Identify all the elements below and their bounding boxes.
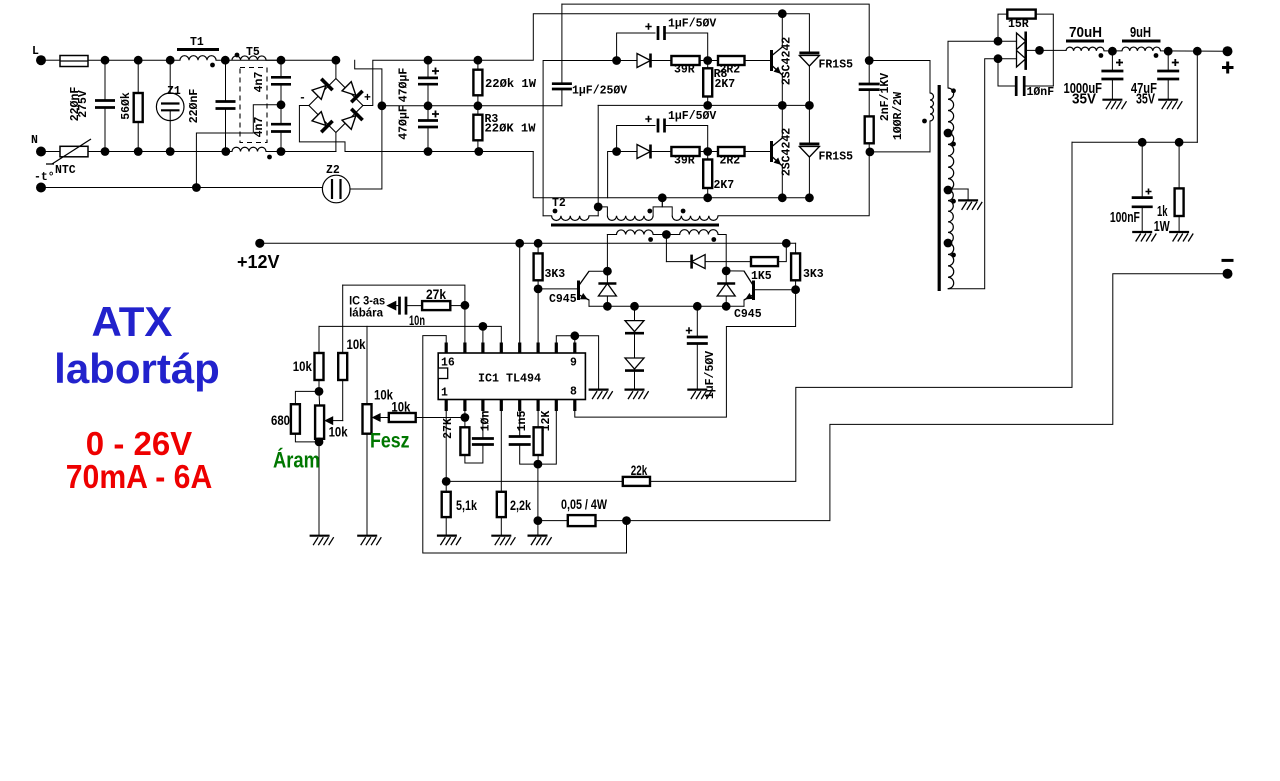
svg-text:0 - 26V: 0 - 26V	[86, 425, 192, 462]
svg-text:0,05 / 4W: 0,05 / 4W	[561, 497, 607, 512]
capacitor 4n7 lower	[271, 124, 291, 131]
resistor 680	[291, 404, 300, 434]
wire fesz pot top	[366, 326, 368, 404]
svg-text:1µF/25ØV: 1µF/25ØV	[572, 85, 627, 98]
wire 3K3 left top lead	[537, 243, 539, 253]
node bottom wire x138	[134, 147, 143, 156]
T5 dashed box	[240, 68, 267, 143]
svg-text:Áram: Áram	[273, 448, 320, 473]
T3 secondary winding s3	[948, 190, 953, 243]
terminal L	[36, 55, 46, 65]
wire R8 bottom lead	[707, 97, 709, 106]
wire 3K3 left bottom lead	[537, 280, 539, 289]
wire pot aram bottom	[318, 439, 321, 442]
node minus x478	[474, 147, 483, 156]
potentiometer fesz 10k	[363, 404, 372, 434]
node pin1	[442, 477, 451, 486]
wire wiper to 10k4	[381, 417, 389, 419]
wire C12 top lead	[1167, 51, 1169, 71]
transformer T2 core	[551, 224, 719, 227]
node tap2	[944, 186, 953, 195]
wire drive diode right bottom	[725, 296, 727, 306]
plus sign C6	[432, 111, 439, 118]
wire fesz to ground	[366, 434, 368, 536]
node bridge top	[332, 56, 341, 65]
svg-text:1ØØR/2W: 1ØØR/2W	[892, 92, 905, 140]
svg-text:16: 16	[441, 357, 455, 370]
pin 9 stub	[573, 343, 576, 354]
wire L2 to output	[1161, 50, 1228, 52]
svg-text:C945: C945	[549, 293, 577, 306]
svg-text:2nF/1KV: 2nF/1KV	[879, 73, 892, 121]
ground 1k	[1169, 231, 1189, 233]
diode FR155 lower	[799, 143, 819, 146]
wire 5,1k to ground	[445, 517, 447, 536]
wire 10n to pin3	[482, 411, 484, 439]
wire pin2 lead	[464, 411, 466, 418]
node T2 drive center tap	[662, 230, 671, 239]
NTC thermistor	[60, 146, 88, 157]
wire T2 winding A to upper branch	[543, 61, 617, 216]
wire bridge plus output	[363, 60, 428, 105]
wire pin6 lead	[537, 411, 539, 427]
svg-text:T2: T2	[552, 197, 566, 210]
node midrail x428	[424, 101, 433, 110]
node midrail x809	[805, 101, 814, 110]
ground shunt	[528, 534, 548, 536]
node lower 39R/2R2	[703, 147, 712, 156]
svg-text:4n7: 4n7	[253, 72, 266, 93]
node +310 x428	[424, 56, 433, 65]
fuse F1	[60, 56, 88, 67]
wire C13 top lead	[1141, 142, 1143, 197]
svg-text:22ØK 1W: 22ØK 1W	[485, 123, 536, 136]
resistor R3 220K 1W	[473, 115, 482, 141]
node pin2	[461, 413, 470, 422]
wire R8 top lead	[707, 61, 709, 69]
wire Q4 emitter drop	[743, 300, 745, 306]
svg-text:70uH: 70uH	[1069, 24, 1102, 41]
wire C8 right lead	[665, 33, 708, 61]
wire C7 to snubber top	[562, 4, 869, 60]
wire 1K5 to +12	[778, 243, 786, 261]
svg-text:3K3: 3K3	[545, 268, 566, 281]
svg-text:22k: 22k	[631, 463, 648, 478]
wire -310 to T2 C	[662, 198, 672, 216]
T2 winding A	[552, 216, 589, 221]
inductor L1 bar	[1066, 40, 1104, 43]
node rectifier anode A	[994, 37, 1003, 46]
wire 39R to node lower	[700, 151, 718, 153]
diode string D9	[625, 358, 644, 369]
capacitor 10n pin3	[472, 439, 494, 445]
wire C 4n7a bottom lead	[280, 84, 282, 105]
pin 4 stub	[500, 400, 503, 412]
wire 680 bottom	[295, 434, 319, 442]
T2 drive winding A2	[617, 230, 654, 235]
resistor 100R/2W	[865, 116, 874, 143]
node +310 x478	[474, 56, 483, 65]
diode across Q3	[598, 284, 616, 297]
wire anodeB to diode	[998, 58, 1017, 60]
svg-text:Z2: Z2	[326, 164, 340, 177]
svg-text:IC 3-as: IC 3-as	[349, 296, 385, 308]
wire T2 drive left drop	[606, 235, 608, 272]
wire R 220k bottom lead	[477, 95, 479, 106]
resistor 3K3 left	[534, 253, 543, 280]
wire between string diodes	[634, 333, 636, 358]
inductor L2 bar	[1122, 40, 1161, 43]
wire lower branch left drop	[608, 152, 617, 198]
node shunt right	[622, 516, 631, 525]
wire aram to ground	[318, 442, 320, 536]
wire secondary bottom to D11	[948, 59, 998, 289]
wire 10k1 bottom lead	[318, 380, 320, 391]
resistor 1k 1W	[1175, 188, 1184, 216]
node T2 primary mid	[594, 203, 603, 212]
svg-text:10k: 10k	[347, 337, 366, 352]
resistor 2R2 upper	[718, 56, 745, 65]
resistor 39R lower	[671, 147, 699, 156]
wire 15R right	[1036, 14, 1054, 86]
wire Z1 bottom lead	[169, 110, 171, 151]
wiper arrow fesz	[372, 413, 381, 422]
transistor Q2 2SC4242	[770, 141, 773, 162]
wire tap2 to ground	[948, 188, 968, 190]
pin 10 stub	[555, 343, 558, 354]
wire to D6	[617, 151, 637, 153]
wire pin11 lead	[537, 289, 539, 343]
node Q3 base	[534, 285, 543, 294]
svg-text:1W: 1W	[1154, 218, 1171, 235]
wire shunt right	[596, 520, 627, 522]
wire T2 drive row mid	[653, 234, 680, 236]
wire 10k2 top line	[343, 285, 465, 305]
phase dot s1	[951, 88, 956, 93]
phase dot s3	[951, 199, 956, 204]
capacitor 100nF	[1132, 198, 1153, 207]
wire 10k2 to wiper	[342, 380, 344, 421]
wire C6 bottom lead	[427, 127, 429, 152]
resistor 2K7 lower	[703, 160, 712, 189]
wire to D5	[617, 60, 637, 62]
svg-text:2K7: 2K7	[715, 78, 736, 91]
wire output sense branch	[1196, 51, 1198, 142]
wire Q4 collector	[726, 270, 744, 272]
svg-text:-: -	[299, 92, 306, 105]
wire pin9 lead	[574, 336, 576, 343]
wire rectifier output	[1026, 49, 1066, 51]
transformer T1 core	[177, 48, 219, 51]
wire tap2 gnd lead	[967, 189, 969, 200]
node top wire x105	[101, 56, 110, 65]
transistor Q1 2SC4242	[770, 50, 773, 71]
wire C 4n7b top lead	[280, 105, 282, 124]
wire C11 to ground	[1111, 79, 1113, 100]
svg-text:N: N	[31, 134, 38, 147]
resistor 10k second	[338, 353, 347, 380]
wire C7 top lead	[561, 4, 563, 84]
wire Vref line	[319, 325, 483, 327]
wire snubber cap lead	[868, 61, 870, 85]
node +12 x538	[534, 239, 543, 248]
wire L1 to node	[1104, 50, 1122, 52]
dual rectifier diode D10/D11	[1017, 33, 1026, 67]
wire 22k to output sense	[650, 142, 1072, 481]
bridge rectifier diamond	[309, 79, 363, 133]
plus sign C9	[645, 116, 651, 122]
wire C11 top lead	[1111, 51, 1113, 71]
wire Q1 emitter	[781, 75, 783, 105]
wire primary top lead	[929, 61, 931, 94]
T2 drive winding B2	[680, 230, 718, 235]
wire NTC to T5	[88, 151, 232, 153]
wire anodeA to diode	[998, 40, 1017, 42]
svg-text:T1: T1	[190, 36, 204, 49]
node aram bottom	[315, 438, 324, 447]
diode D7	[692, 255, 706, 269]
capacitor 1uF/250V	[552, 84, 572, 89]
wire 27K top lead	[464, 418, 466, 428]
surge arrester Z2	[322, 175, 350, 203]
IC U1 TL494 body	[438, 353, 585, 400]
node lower branch left	[612, 147, 621, 156]
svg-text:-t°: -t°	[34, 171, 55, 184]
resistor 39R upper	[671, 56, 699, 65]
ground C12	[1158, 99, 1178, 101]
varistor Z1	[156, 93, 184, 121]
wire primary bottom rail	[869, 151, 930, 153]
svg-text:ATX: ATX	[92, 298, 173, 345]
wire sense rail	[1072, 141, 1197, 143]
wire T2 A left	[543, 215, 552, 217]
phase dot T3 primary	[922, 119, 927, 124]
wire 1n5 bottom	[520, 445, 538, 465]
node snubber bottom	[866, 148, 875, 157]
ground fesz pot	[357, 535, 377, 537]
pin 8 stub	[573, 400, 576, 412]
node pin9/10	[570, 331, 579, 340]
phase dot T1	[210, 63, 215, 68]
node aram top	[315, 387, 324, 396]
node 4n7 top	[277, 56, 286, 65]
wire switch-node rail	[598, 104, 809, 106]
svg-text:22ØnF: 22ØnF	[188, 89, 201, 124]
T2 winding C	[672, 216, 718, 221]
svg-text:9uH: 9uH	[1130, 24, 1151, 41]
wire shunt left	[538, 520, 568, 522]
resistor 10k wiper	[389, 413, 416, 422]
node midrail x707	[703, 101, 712, 110]
wire drive diode right lead	[725, 271, 727, 284]
wire primary bottom lead	[929, 121, 931, 152]
wire C8 left lead	[617, 33, 655, 61]
svg-text:10k: 10k	[329, 425, 348, 440]
inductor L2 9uH	[1122, 47, 1160, 51]
node tap1	[944, 129, 953, 138]
transformer T3 core	[938, 85, 941, 291]
node top wire x170	[166, 56, 175, 65]
transistor Q3 C945	[577, 281, 580, 301]
wire +12V rail	[260, 242, 796, 244]
node sense x1179	[1175, 138, 1184, 147]
wire pin14 lead	[482, 326, 484, 342]
phase dot T2 B	[647, 209, 652, 214]
wire switch node to T2	[597, 105, 599, 206]
svg-text:35V: 35V	[1136, 91, 1155, 108]
svg-text:10k: 10k	[293, 359, 312, 374]
wire pin9 to ground	[575, 336, 599, 390]
node emitter rail x634	[630, 302, 639, 311]
svg-text:35V: 35V	[1072, 91, 1096, 108]
pin 12 stub	[518, 343, 521, 354]
capacitor 1uF/50V drive	[687, 337, 708, 344]
phase dot T5 bottom	[267, 155, 272, 160]
wire C1 top lead	[104, 60, 106, 100]
plus sign C5	[432, 68, 439, 75]
wire C 4n7a top lead	[280, 60, 282, 77]
diode string D8	[625, 321, 644, 332]
node Q3 collector	[603, 267, 612, 276]
node upper branch left	[612, 56, 621, 65]
wire drive diode left lead	[606, 271, 608, 283]
wire earth line	[41, 187, 322, 189]
wire C2 bottom lead	[225, 109, 227, 152]
pin 2 stub	[463, 400, 466, 412]
node emitter rail x697	[693, 302, 702, 311]
node top wire x225	[221, 56, 230, 65]
wire Q3 collector	[589, 270, 607, 272]
transistor Q4 C945	[752, 281, 755, 301]
pin 6 stub	[536, 400, 539, 412]
wire Q2 collector	[781, 105, 783, 138]
node emitter rail x726	[722, 302, 731, 311]
node shunt left	[534, 516, 543, 525]
node +12 x519	[515, 239, 524, 248]
svg-text:Fesz: Fesz	[370, 430, 410, 453]
resistor 3K3 right	[791, 253, 800, 280]
resistor 2R2 lower	[718, 147, 745, 156]
capacitor 2nF/1KV	[859, 84, 880, 90]
wire minus rail	[345, 151, 533, 153]
svg-text:+12V: +12V	[237, 252, 280, 272]
wire pin4 lead	[500, 411, 502, 492]
svg-text:27k: 27k	[426, 287, 446, 302]
capacitor 1n5	[509, 437, 531, 445]
node snubber top	[865, 56, 874, 65]
wire C5 bottom lead	[427, 84, 429, 106]
wire C9 right lead	[665, 126, 708, 152]
svg-text:1µF/5ØV: 1µF/5ØV	[668, 110, 716, 123]
ground 2,2k	[491, 535, 511, 537]
node doubler midpoint	[378, 101, 387, 110]
inductor L1 70uH	[1066, 47, 1104, 51]
wire 39R to node	[700, 60, 718, 62]
resistor 15R	[1007, 10, 1035, 19]
svg-text:27K: 27K	[442, 418, 455, 439]
wire C 4n7b bottom lead	[280, 132, 282, 152]
plus sign C10	[686, 327, 692, 333]
wire C5 top lead	[427, 60, 429, 78]
wire FR155 upper anode	[808, 66, 810, 105]
ground pins 9/10	[589, 389, 609, 391]
node upper collector	[778, 9, 787, 18]
capacitor 10n feedback	[400, 297, 407, 315]
wire 3K3 right bottom lead	[795, 280, 797, 289]
svg-text:39R: 39R	[674, 155, 695, 168]
svg-text:2K7: 2K7	[714, 179, 735, 192]
svg-text:1ØnF: 1ØnF	[1027, 86, 1055, 99]
wire R 220k top lead	[477, 60, 479, 69]
node 4n7 midpoint	[277, 100, 286, 109]
capacitor 10nF	[1016, 76, 1024, 96]
plus sign C12	[1172, 59, 1179, 66]
svg-text:39R: 39R	[674, 64, 695, 77]
wire 12K bottom lead	[537, 455, 539, 464]
node minus x428	[424, 147, 433, 156]
wire Z1 top lead	[169, 60, 171, 103]
wire 10k2 top lead	[342, 285, 344, 353]
node -310 x662	[658, 193, 667, 202]
T3 secondary winding s2	[948, 133, 954, 190]
wire L to fuse	[45, 59, 60, 61]
svg-text:4n7: 4n7	[253, 117, 266, 138]
wire primary return to T2	[718, 152, 869, 216]
svg-text:lábára: lábára	[349, 308, 384, 320]
T3 secondary winding s4	[948, 243, 954, 289]
svg-text:C945: C945	[734, 308, 762, 321]
wire line2 to FR155	[782, 14, 809, 53]
ground aram pot	[310, 535, 330, 537]
wire N to NTC	[45, 151, 60, 153]
resistor 22k	[623, 477, 650, 486]
wire C10 top lead	[696, 306, 698, 337]
wire R 560k bottom lead	[137, 122, 139, 152]
wire Q3 base	[538, 288, 578, 290]
wire 27k to node	[450, 305, 465, 307]
node -310 x809	[805, 193, 814, 202]
resistor 5,1k	[442, 492, 451, 517]
diode FR155 upper	[799, 52, 819, 55]
wire CT to D7	[666, 261, 691, 263]
wire primary top	[869, 60, 930, 62]
pin 13 stub	[500, 343, 503, 354]
wire fuse to T1	[88, 59, 180, 61]
wire R3 bottom lead	[477, 140, 479, 151]
phase dot s2	[951, 142, 956, 147]
wire Vref to pin13	[483, 326, 501, 342]
svg-text:8: 8	[570, 386, 577, 399]
pin 1 stub	[445, 400, 448, 412]
svg-text:1: 1	[441, 387, 448, 400]
node 27k out	[461, 301, 470, 310]
wire pin1 to 22k	[446, 480, 623, 482]
wire 10nF right	[1024, 85, 1053, 87]
node -310 x707	[703, 193, 712, 202]
node timing	[534, 460, 543, 469]
svg-text:2,2k: 2,2k	[510, 498, 531, 513]
svg-text:47ØµF: 47ØµF	[398, 68, 411, 103]
wire C7 bottom lead	[561, 89, 563, 106]
node bottom wire x105	[101, 147, 110, 156]
svg-text:1µF/5ØV: 1µF/5ØV	[668, 18, 716, 31]
wire pin16 to sense	[423, 336, 627, 553]
node Q4 collector	[722, 267, 731, 276]
phase dot T2 B2	[711, 237, 716, 242]
node Q4 base	[791, 285, 800, 294]
terminal minus output	[1223, 269, 1233, 279]
wire bridge minus output	[299, 106, 345, 152]
